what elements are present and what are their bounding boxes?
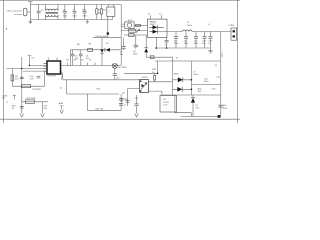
inductor L2 — [183, 30, 193, 32]
frame bottom border — [0, 118, 240, 120]
wire row2 — [121, 30, 147, 32]
svg-text:Dr: Dr — [159, 14, 161, 16]
tick mark — [6, 101, 8, 103]
resistor R17 — [150, 56, 154, 59]
ground PE1 — [29, 20, 32, 24]
relay K1 — [125, 22, 134, 29]
junction dot — [166, 47, 168, 49]
node L net stub — [28, 2, 32, 20]
svg-text:Not connected: Not connected — [7, 9, 22, 12]
resistor R13 — [129, 29, 136, 32]
junction square — [107, 32, 109, 34]
diode D4 — [145, 35, 147, 57]
capacitor C2 — [64, 5, 66, 20]
IC U3 TL431 — [160, 96, 177, 113]
wire U3 cathode — [174, 95, 176, 113]
wire bus mid left — [29, 65, 47, 67]
capacitor C22a — [20, 106, 24, 108]
junction dot — [155, 47, 157, 49]
ground PE2 — [86, 20, 89, 24]
ground GND4 — [135, 114, 139, 118]
svg-text:PC817: PC817 — [142, 77, 149, 79]
svg-text:220u: 220u — [174, 43, 178, 45]
wire DC trunk — [120, 5, 122, 66]
svg-text:10n: 10n — [44, 108, 47, 110]
wire snubber top — [93, 37, 121, 39]
ground GND7 — [60, 106, 64, 114]
wire aux — [146, 56, 172, 58]
wire left long vertical — [21, 57, 23, 112]
frame left border — [3, 0, 5, 123]
IC U4 dual diode — [147, 19, 167, 37]
svg-text:100n: 100n — [72, 15, 76, 17]
capacitor C9 — [166, 37, 168, 48]
svg-text:275V: 275V — [82, 15, 87, 17]
diode U4B — [153, 30, 158, 34]
wire U1 top pins — [48, 58, 57, 62]
svg-text:GND: GND — [133, 54, 138, 56]
wire filter link — [191, 84, 220, 86]
wire fb loop — [87, 94, 121, 110]
svg-text:10uH: 10uH — [187, 25, 192, 27]
svg-text:10u: 10u — [120, 54, 123, 56]
svg-text:1k: 1k — [12, 108, 14, 110]
wire feedback lower — [23, 70, 47, 72]
svg-text:B+ 325V: B+ 325V — [118, 67, 127, 69]
wire feedback upper — [6, 68, 47, 70]
fuse F1 — [24, 8, 27, 16]
capacitor C10 — [175, 32, 177, 49]
wire choke leads — [46, 5, 59, 20]
optocoupler U2 — [140, 80, 149, 93]
inductor L1 common-mode choke — [46, 9, 58, 11]
diode D3 — [106, 48, 110, 52]
zener D7 — [192, 95, 194, 117]
ground GND5 — [20, 108, 24, 117]
svg-text:+12V: +12V — [221, 52, 223, 57]
wire U4 anode to rail — [155, 37, 157, 48]
svg-text:10n: 10n — [202, 43, 205, 45]
resistor R18 — [154, 73, 156, 82]
wire row3 — [124, 34, 147, 36]
wire rectified node — [190, 61, 192, 95]
wire sense mid — [67, 80, 120, 94]
svg-text:R22 10k: R22 10k — [96, 108, 103, 110]
varistor RV1 — [84, 5, 86, 20]
wire +5V right rail — [220, 61, 222, 117]
svg-text:R21 220R: R21 220R — [26, 98, 36, 100]
svg-text:100u: 100u — [204, 81, 208, 83]
frame top border — [0, 0, 240, 2]
tick mark — [208, 24, 210, 26]
svg-text:AGN: AGN — [59, 102, 64, 105]
capacitor C13 — [204, 32, 206, 49]
wire RTN bottom — [12, 71, 44, 86]
capacitor C21 — [136, 95, 138, 114]
svg-text:CON2: CON2 — [228, 25, 234, 27]
IC U1 switcher — [47, 61, 61, 74]
capacitor C20 — [119, 99, 123, 101]
wire clamp row — [71, 49, 122, 51]
wire top AC bus — [30, 4, 121, 6]
wire U1 left pins — [44, 64, 48, 72]
wire bridge top leads — [108, 5, 113, 20]
ground GND6 — [41, 114, 45, 118]
wire transformer T1 secondary — [172, 57, 174, 95]
wire bias row — [22, 101, 48, 103]
wire +12V output rail — [158, 31, 232, 33]
svg-text:1k: 1k — [121, 101, 123, 103]
resistor R1 — [96, 5, 98, 20]
wire output bottom rail — [181, 116, 220, 118]
wire bus ticks — [68, 63, 96, 66]
capacitor C20b — [119, 104, 123, 106]
inductor L4 — [60, 71, 63, 73]
svg-text:47k: 47k — [15, 79, 18, 81]
node stub bottom left — [13, 95, 16, 99]
wire fuse to node — [27, 11, 30, 13]
capacitor C10b plates — [20, 77, 24, 79]
capacitor C19 — [218, 105, 223, 107]
wire opto in — [128, 89, 140, 106]
junction dot — [191, 89, 193, 91]
diode D6 — [173, 88, 192, 90]
wire K1 pins — [121, 24, 125, 27]
resistor R4 — [21, 85, 30, 88]
frame right border — [237, 0, 239, 123]
svg-text:100n: 100n — [194, 43, 198, 45]
svg-text:TL431: TL431 — [163, 102, 170, 104]
junction dot — [191, 79, 193, 81]
wire secondary top rail — [155, 60, 221, 62]
svg-text:TNY267P: TNY267P — [47, 76, 56, 78]
capacitor C11 — [185, 32, 187, 49]
diode U4A — [153, 25, 158, 29]
svg-text:Vc: Vc — [148, 14, 150, 16]
capacitor C marks — [37, 76, 41, 78]
svg-text:1n: 1n — [208, 43, 210, 45]
svg-text:470u: 470u — [223, 108, 227, 110]
capacitor C3 — [74, 5, 76, 20]
svg-text:1mH: 1mH — [193, 74, 198, 76]
svg-text:R4 47k 400V: R4 47k 400V — [95, 36, 107, 38]
svg-text:1M: 1M — [98, 12, 101, 14]
svg-text:10n: 10n — [75, 58, 78, 60]
resistor R9 — [88, 48, 93, 51]
capacitor C14 — [210, 32, 212, 49]
arrow mark — [136, 29, 139, 32]
ground GND3 — [208, 48, 212, 53]
capacitor C22 — [41, 102, 43, 114]
capacitor C12 — [195, 32, 197, 49]
wire bottom AC bus — [30, 19, 112, 21]
wire drop left — [70, 50, 72, 66]
wire bus mid right — [61, 65, 122, 67]
connector J1 — [231, 28, 237, 40]
lamp LP1 — [112, 63, 117, 68]
svg-text:1k: 1k — [152, 72, 154, 74]
resistor R21 — [25, 100, 34, 103]
wire bridge DC output — [107, 16, 109, 37]
diode D5 — [173, 79, 192, 81]
capacitor C plates — [126, 101, 130, 103]
capacitor C5 — [72, 50, 74, 66]
capacitor C8 — [135, 35, 137, 49]
capacitor C6 — [80, 50, 82, 66]
wire U3 anode — [175, 113, 192, 117]
node stub D+ — [28, 56, 32, 66]
resistor R2 — [101, 5, 103, 20]
diode D2 — [101, 38, 103, 66]
wire opto collector — [148, 81, 172, 83]
wire caps bottom rail — [156, 47, 210, 49]
resistor R3 — [11, 69, 13, 87]
svg-text:to mains: to mains — [14, 13, 23, 16]
junction dot — [157, 73, 159, 75]
wire opto emitter step — [148, 91, 162, 95]
junction square — [218, 115, 221, 118]
svg-text:1u: 1u — [124, 104, 126, 106]
wire K1 to U4 — [134, 24, 147, 26]
resistor R12 — [136, 24, 141, 26]
capacitor C1 — [38, 5, 40, 20]
wire bus lower — [63, 79, 140, 81]
wire output mid rail — [162, 94, 221, 96]
wire right drop — [220, 32, 222, 62]
wire U4 top pins — [151, 15, 162, 19]
svg-text:2.5V: 2.5V — [163, 105, 168, 107]
capacitor C15 — [114, 68, 116, 79]
svg-text:RTN PRI-: RTN PRI- — [33, 89, 42, 91]
capacitor C7 — [123, 38, 125, 50]
bridge rectifier BR1 — [107, 7, 115, 16]
svg-text:100n: 100n — [63, 15, 67, 17]
tick mark left — [6, 28, 8, 30]
resistor R14 — [129, 34, 135, 37]
svg-text:220u: 220u — [184, 43, 188, 45]
wire snubber corner — [124, 61, 158, 73]
